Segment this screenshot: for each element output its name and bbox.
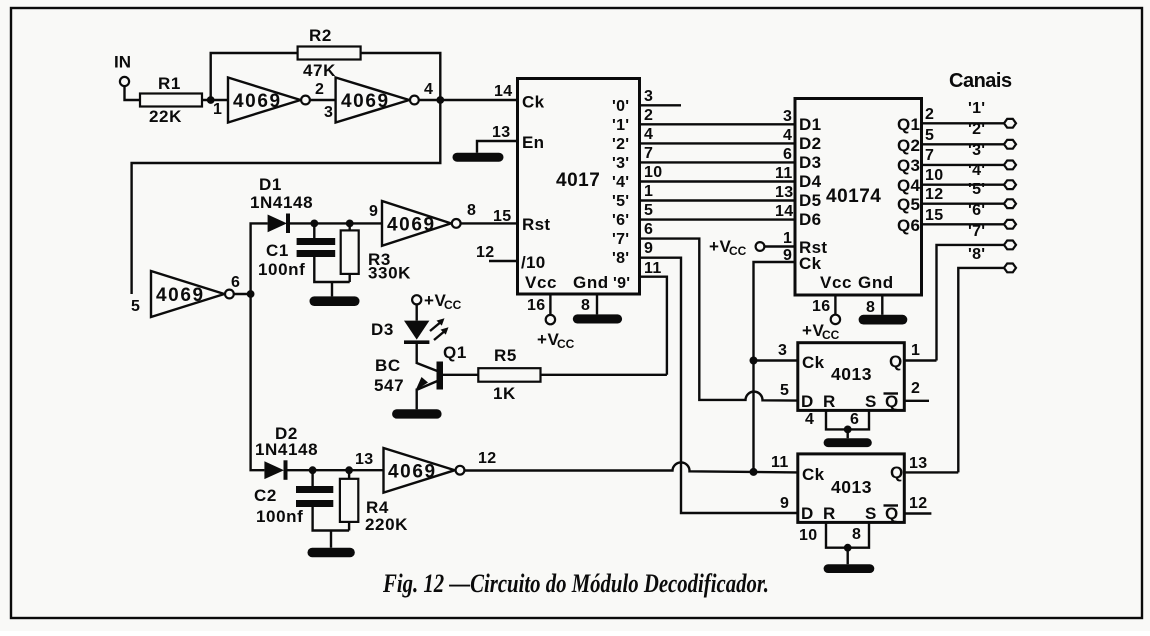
svg-text:11: 11 (644, 260, 662, 277)
svg-text:Vcc: Vcc (525, 273, 557, 292)
svg-text:Ck: Ck (802, 465, 825, 484)
svg-text:4: 4 (424, 81, 433, 98)
svg-text:1K: 1K (493, 384, 516, 403)
pin 13 label and En ground wire (477, 124, 518, 153)
IC U5 4013 second (798, 454, 905, 523)
svg-text:330K: 330K (368, 264, 411, 283)
svg-text:'0': '0' (612, 98, 629, 115)
svg-text:4013: 4013 (831, 364, 872, 384)
svg-text:Q3: Q3 (897, 156, 920, 175)
resistor R5 1K (478, 346, 540, 403)
pin 16 Vcc stub of 40174 (802, 295, 840, 342)
wire '5' to D5 of 40174 (640, 199, 796, 201)
pin 8 Gnd stub (581, 294, 597, 314)
svg-text:12: 12 (925, 186, 943, 203)
svg-text:'7': '7' (612, 231, 629, 248)
svg-text:R5: R5 (494, 346, 517, 365)
wire U1e output to 4013 Ck with hop (465, 462, 798, 472)
svg-text:CC: CC (729, 244, 747, 258)
pin labels left of 40174 (775, 108, 793, 264)
svg-text:220K: 220K (365, 515, 408, 534)
svg-text:CC: CC (822, 328, 840, 342)
op-amp U1e inverter 4069 pins 13-12 (355, 448, 496, 493)
svg-text:4069: 4069 (233, 91, 282, 112)
svg-text:Gnd: Gnd (858, 273, 894, 292)
wire Q4 to channel 4 (922, 183, 1005, 185)
svg-text:2: 2 (925, 106, 934, 123)
svg-text:3: 3 (783, 108, 792, 125)
svg-text:1: 1 (911, 342, 920, 359)
ground at 40174 pin 8 (859, 315, 908, 325)
svg-text:10: 10 (925, 167, 943, 184)
pin 12 label and /10 stub (476, 244, 518, 261)
svg-text:11: 11 (775, 165, 793, 182)
svg-text:D1: D1 (259, 175, 282, 194)
wire 4013a Ck to bus (754, 359, 798, 361)
svg-text:13: 13 (492, 124, 510, 141)
svg-text:13: 13 (355, 451, 373, 468)
wire U1d to 4017 Rst (461, 222, 518, 224)
svg-text:'7': '7' (968, 223, 985, 240)
svg-text:1: 1 (783, 230, 792, 247)
node 1 junction (207, 96, 222, 118)
svg-text:3: 3 (644, 88, 653, 105)
node 6 junction (247, 290, 255, 298)
IC U4 4013 first (798, 343, 905, 411)
svg-text:Ck: Ck (802, 353, 825, 372)
svg-text:2: 2 (911, 380, 920, 397)
svg-text:Ck: Ck (522, 93, 545, 112)
svg-text:9: 9 (369, 203, 378, 220)
op-amp U1b inverter 4069 pins 3-4 (336, 78, 419, 123)
svg-text:12: 12 (909, 495, 927, 512)
svg-text:4069: 4069 (341, 91, 390, 112)
svg-text:2: 2 (315, 81, 324, 98)
ground at 4013b (824, 564, 875, 573)
svg-text:1N4148: 1N4148 (250, 193, 313, 212)
svg-text:6: 6 (850, 411, 859, 428)
wire output '0' stub (640, 104, 682, 106)
svg-text:Q1: Q1 (897, 115, 920, 134)
svg-text:Ck: Ck (799, 254, 822, 273)
svg-text:8: 8 (581, 297, 590, 314)
node C2 junction (309, 466, 317, 474)
pin 16 Vcc stub and terminal (527, 294, 575, 351)
wire Q1 base to R5 (443, 374, 478, 376)
wire '2' to D2 of 40174 (640, 142, 796, 144)
pin 1 label and Q wire (904, 342, 936, 361)
wire U1a to U1b (310, 99, 336, 101)
svg-text:8: 8 (852, 526, 861, 543)
resistor R4 220K (340, 470, 408, 534)
ground at Q1 emitter (392, 409, 442, 418)
svg-text:6: 6 (783, 146, 792, 163)
node junction pin4 (436, 96, 444, 104)
svg-text:'3': '3' (968, 142, 985, 159)
svg-text:13: 13 (775, 184, 793, 201)
svg-text:1: 1 (644, 183, 653, 200)
svg-text:1: 1 (213, 101, 222, 118)
svg-text:'3': '3' (612, 155, 629, 172)
svg-text:R: R (823, 392, 836, 411)
svg-text:D1: D1 (799, 115, 821, 134)
svg-text:4069: 4069 (387, 215, 436, 236)
svg-text:D6: D6 (799, 210, 821, 229)
resistor R1 (140, 74, 202, 126)
wire D1 to U1d input (290, 222, 382, 224)
svg-text:Q1: Q1 (443, 343, 467, 362)
op-amp U1a inverter 4069 pins 1-2 (228, 78, 310, 123)
ground at C2/R4 (308, 531, 355, 558)
pin 13 label and Q wire (904, 455, 958, 472)
svg-text:1N4148: 1N4148 (255, 440, 318, 459)
svg-text:/10: /10 (521, 253, 546, 272)
svg-text:Fig. 12 —Circuito do Módulo De: Fig. 12 —Circuito do Módulo Decodificado… (382, 569, 769, 598)
node channel '6' terminal (968, 202, 1016, 229)
svg-text:11: 11 (771, 454, 789, 471)
wire Q3 to channel 3 (922, 164, 1005, 166)
ground at En (453, 153, 504, 162)
svg-text:En: En (522, 133, 544, 152)
wire Q5 to channel 5 (922, 202, 1005, 204)
svg-text:IN: IN (114, 53, 131, 72)
svg-text:'4': '4' (612, 174, 629, 191)
svg-text:D: D (801, 504, 814, 523)
svg-text:'1': '1' (968, 100, 985, 117)
svg-text:2: 2 (644, 107, 653, 124)
svg-text:7: 7 (925, 147, 934, 164)
svg-text:5: 5 (131, 298, 140, 315)
wire '7' down to D of 4013a with hop (640, 239, 798, 401)
node IN terminal (114, 53, 131, 87)
node channel '3' terminal (968, 142, 1016, 169)
svg-text:Vcc: Vcc (820, 273, 852, 292)
svg-text:14: 14 (494, 83, 512, 100)
pin 8 Gnd stub of 40174 (866, 295, 882, 316)
pins 10 and 8 to ground (799, 522, 869, 564)
svg-text:4069: 4069 (388, 462, 437, 483)
svg-text:15: 15 (925, 207, 943, 224)
svg-text:Q5: Q5 (897, 195, 920, 214)
node channel '7' terminal and wire from 4013a Q (937, 223, 1017, 361)
wire '3' to D3 of 40174 (640, 161, 796, 163)
svg-text:'8': '8' (612, 250, 629, 267)
wire '6' to D6 of 40174 (640, 218, 796, 220)
svg-text:Gnd: Gnd (573, 273, 609, 292)
svg-text:9: 9 (780, 495, 789, 512)
op-amp U1d inverter 4069 pins 9-8 (369, 201, 476, 246)
node +Vcc at 40174 Rst (709, 237, 795, 258)
wire '9' down to R5 row (640, 277, 667, 375)
op-amp U1c inverter 4069 pins 5-6 (131, 271, 240, 317)
svg-text:R1: R1 (158, 74, 181, 93)
svg-text:D5: D5 (799, 191, 821, 210)
wire U1b output to 4017 Ck (419, 99, 518, 101)
svg-text:'8': '8' (968, 246, 985, 263)
svg-text:5: 5 (925, 127, 934, 144)
node R3 junction (346, 220, 354, 228)
svg-text:5: 5 (644, 202, 653, 219)
capacitor C2 100nf (254, 470, 349, 530)
svg-text:S: S (865, 504, 877, 523)
wire '1' to D1 of 40174 (640, 123, 796, 125)
node channel '5' terminal (968, 181, 1016, 208)
node junction Ck 4013a (750, 357, 758, 365)
svg-text:4013: 4013 (831, 477, 872, 497)
LED D3 (371, 304, 449, 344)
wire R5 to '9' vertical (541, 374, 667, 376)
node +Vcc terminal at D3 (412, 291, 462, 312)
svg-text:Rst: Rst (522, 215, 550, 234)
svg-text:8: 8 (866, 299, 875, 316)
svg-text:D3: D3 (371, 320, 394, 339)
svg-text:12: 12 (476, 244, 494, 261)
wire node6 up to D1 row and down to D2 row (234, 223, 268, 470)
svg-text:547: 547 (374, 376, 404, 395)
diode D1 1N4148 (250, 175, 313, 233)
svg-text:16: 16 (812, 298, 830, 315)
wire R2 right down to pin4 node (361, 53, 441, 100)
pin 2 label and Qbar stub (904, 380, 929, 401)
svg-text:Q: Q (889, 352, 903, 371)
svg-text:6: 6 (644, 221, 653, 238)
wire '8' down to D of 4013b (640, 258, 798, 513)
svg-text:Q: Q (885, 392, 899, 411)
svg-text:4: 4 (783, 127, 792, 144)
svg-text:4: 4 (644, 126, 653, 143)
wire IN to R1 (125, 86, 141, 100)
svg-text:12: 12 (478, 450, 496, 467)
wire feedback up to R2 (211, 53, 298, 100)
pin labels right of 40174 (925, 106, 943, 224)
svg-text:7: 7 (644, 145, 653, 162)
node R4 junction (345, 466, 353, 474)
svg-text:6: 6 (231, 274, 240, 291)
svg-text:9: 9 (644, 240, 653, 257)
svg-text:5: 5 (780, 382, 789, 399)
svg-text:D4: D4 (799, 172, 822, 191)
node channel '1' terminal (968, 100, 1016, 128)
svg-text:D2: D2 (799, 134, 821, 153)
svg-text:'1': '1' (612, 117, 629, 134)
node channel '2' terminal (968, 121, 1016, 149)
svg-text:3: 3 (324, 104, 333, 121)
svg-text:Q6: Q6 (897, 216, 920, 235)
svg-text:BC: BC (375, 356, 401, 375)
wire Ck bus vertical (754, 262, 796, 472)
svg-text:40174: 40174 (826, 186, 881, 207)
IC U3 40174 (795, 99, 922, 296)
IC U2 4017 (518, 79, 640, 295)
node C1 junction (310, 220, 318, 228)
svg-text:8: 8 (467, 202, 476, 219)
svg-text:'6': '6' (612, 212, 629, 229)
svg-text:'2': '2' (612, 136, 629, 153)
svg-text:C1: C1 (266, 241, 289, 260)
capacitor C1 100nf (258, 223, 350, 282)
svg-text:D3: D3 (799, 153, 821, 172)
ground at C1/R3 (310, 282, 360, 306)
transistor Q1 BC547 (374, 343, 467, 409)
svg-text:10: 10 (644, 164, 662, 181)
svg-text:47K: 47K (303, 61, 336, 80)
wire Q2 to channel 2 (922, 143, 1005, 145)
svg-text:R: R (823, 504, 836, 523)
svg-text:C2: C2 (254, 486, 277, 505)
wire '4' to D4 of 40174 (640, 180, 796, 182)
wire pin4 node down and left to U1c input (132, 100, 441, 294)
svg-text:'5': '5' (612, 193, 629, 210)
svg-text:'4': '4' (968, 162, 985, 179)
svg-text:'6': '6' (968, 202, 985, 219)
ground at 4017 pin 8 (573, 314, 622, 323)
wire Q1 to channel 1 (922, 122, 1005, 124)
pins 4 and 6 to ground (805, 410, 869, 438)
svg-text:CC: CC (444, 298, 462, 312)
svg-text:Q: Q (885, 504, 899, 523)
resistor R2 (298, 26, 361, 80)
wire D2 to U1e input (288, 469, 384, 471)
svg-text:'2': '2' (968, 121, 985, 138)
svg-text:Q: Q (890, 463, 904, 482)
svg-text:'5': '5' (968, 181, 985, 198)
node channel '4' terminal (968, 162, 1016, 189)
svg-text:14: 14 (775, 203, 793, 220)
svg-text:R2: R2 (309, 26, 332, 45)
svg-text:'9': '9' (613, 275, 630, 292)
node channel '8' terminal and wire from 4013b Q (958, 246, 1016, 472)
wire Q6 to channel 6 (922, 223, 1005, 225)
svg-text:3: 3 (778, 342, 787, 359)
diode D2 1N4148 (255, 424, 318, 480)
svg-text:Q4: Q4 (897, 176, 921, 195)
svg-text:S: S (865, 392, 877, 411)
svg-text:4017: 4017 (556, 170, 600, 191)
svg-text:16: 16 (527, 297, 545, 314)
svg-text:4: 4 (805, 411, 814, 428)
svg-text:Q2: Q2 (897, 136, 920, 155)
wire R1 to node 1 (202, 99, 228, 101)
svg-text:13: 13 (909, 455, 927, 472)
pin 12 label and Qbar stub (904, 495, 931, 514)
svg-text:4069: 4069 (156, 285, 205, 306)
svg-text:100nf: 100nf (256, 507, 303, 526)
svg-text:22K: 22K (149, 107, 182, 126)
svg-text:100nf: 100nf (258, 260, 305, 279)
resistor R3 330K (341, 223, 411, 282)
svg-text:10: 10 (799, 527, 817, 544)
ground at 4013a (824, 438, 872, 447)
svg-text:CC: CC (557, 337, 575, 351)
node junction Ck bus (750, 468, 758, 476)
svg-text:Canais: Canais (949, 70, 1012, 92)
svg-text:D: D (801, 392, 814, 411)
